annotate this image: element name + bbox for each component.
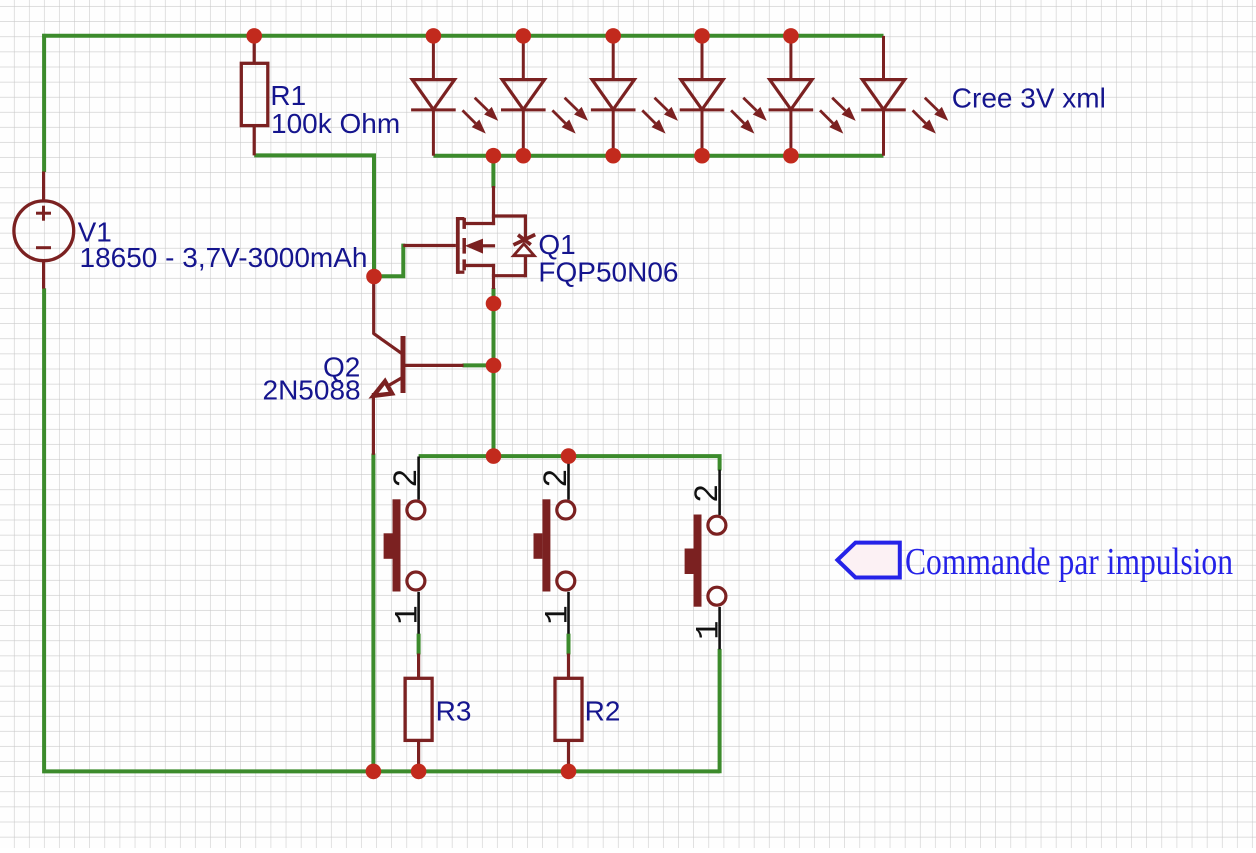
wire button S3 pin1 down to bottom rail [718, 649, 722, 773]
svg-text:100k Ohm: 100k Ohm [271, 108, 400, 139]
junction D5 anode [783, 28, 799, 44]
junction D4 cathode [694, 148, 710, 164]
pushbutton S2 [534, 457, 575, 634]
LED D2 [501, 36, 588, 156]
svg-text:R3: R3 [436, 696, 472, 727]
R1 pin 1 (top stub) [253, 36, 256, 63]
LED D5 [769, 36, 856, 156]
svg-text:R1: R1 [270, 80, 306, 111]
svg-text:2N5088: 2N5088 [263, 375, 361, 406]
V1 pin - (bottom stub) [42, 261, 45, 289]
junction button rail S2 [561, 448, 577, 464]
wire LED rail to Q1 drain [491, 156, 495, 188]
V1 plus sign [36, 212, 51, 215]
V1 minus sign [36, 246, 51, 249]
junction Q2 base node [486, 358, 502, 374]
junction D2 cathode [516, 148, 532, 164]
junction R2 bottom [561, 764, 577, 780]
wire button S2 pin1 to R2 [567, 634, 571, 655]
wire Q2 base to source node [463, 363, 494, 367]
V1 pin + (top stub) [42, 172, 45, 202]
svg-text:1: 1 [390, 605, 427, 624]
svg-text:R2: R2 [585, 696, 621, 727]
svg-text:FQP50N06: FQP50N06 [538, 257, 678, 288]
wire from V1 minus down left side and along bottom rail [44, 288, 720, 771]
R1 pin 2 (bottom stub) [253, 126, 256, 156]
resistor R2 body [555, 678, 582, 740]
wire button top rail with corner down to button S3 [419, 456, 720, 470]
wire gate node to Q1 gate lead [374, 244, 403, 277]
R3 pin 1 (bottom stub) [417, 740, 420, 771]
junction D3 cathode [605, 148, 621, 164]
junction R3 bottom [411, 764, 427, 780]
LED D3 [591, 36, 678, 156]
LED D6 [861, 36, 948, 156]
resistor R1 body [241, 63, 267, 125]
svg-text:2: 2 [387, 469, 423, 487]
junction gate node [366, 269, 382, 285]
transistor Q1 n-channel MOSFET with body diode [403, 186, 535, 289]
svg-text:1: 1 [540, 605, 577, 624]
svg-text:18650 - 3,7V-3000mAh: 18650 - 3,7V-3000mAh [80, 242, 368, 273]
wire LED cathode rail [433, 154, 883, 158]
resistor R3 body [405, 678, 432, 740]
junction D2 anode [516, 28, 532, 44]
junction D4 anode [694, 28, 710, 44]
junction Q1 source node [486, 296, 502, 312]
junction button rail left [486, 448, 502, 464]
LED D1 [411, 36, 498, 156]
wire left vertical from top rail to V1 plus [42, 34, 46, 172]
junction R1 top [246, 28, 262, 44]
wire Q2 emitter down to bottom rail [371, 454, 375, 772]
junction emitter to rail [366, 764, 382, 780]
svg-text:Cree 3V xml: Cree 3V xml [952, 83, 1106, 114]
junction drain tap [486, 148, 502, 164]
R2 pin 1 (bottom stub) [567, 740, 570, 771]
junction D1 anode [426, 28, 442, 44]
LED D4 [680, 36, 767, 156]
junction D5 cathode [783, 148, 799, 164]
pushbutton S3 [685, 470, 726, 650]
pushbutton S1 [384, 457, 425, 634]
R3 pin 2 (top stub) [417, 654, 420, 679]
note flag pentagon [837, 543, 899, 578]
svg-text:2: 2 [688, 484, 724, 502]
wire Q1 source down through base node to button rail [492, 288, 496, 456]
R2 pin 2 (top stub) [567, 654, 570, 679]
battery V1 circle symbol [14, 201, 74, 261]
wire top power rail [42, 34, 883, 38]
svg-text:2: 2 [537, 469, 573, 487]
transistor Q2 NPN (mirrored) [373, 282, 463, 455]
junction D3 anode [605, 28, 621, 44]
svg-text:1: 1 [691, 620, 728, 639]
wire button S1 pin1 to R3 [417, 634, 421, 655]
wire from R1 bottom right then down to gate node [254, 155, 374, 276]
svg-text:Commande par impulsion: Commande par impulsion [905, 541, 1233, 583]
